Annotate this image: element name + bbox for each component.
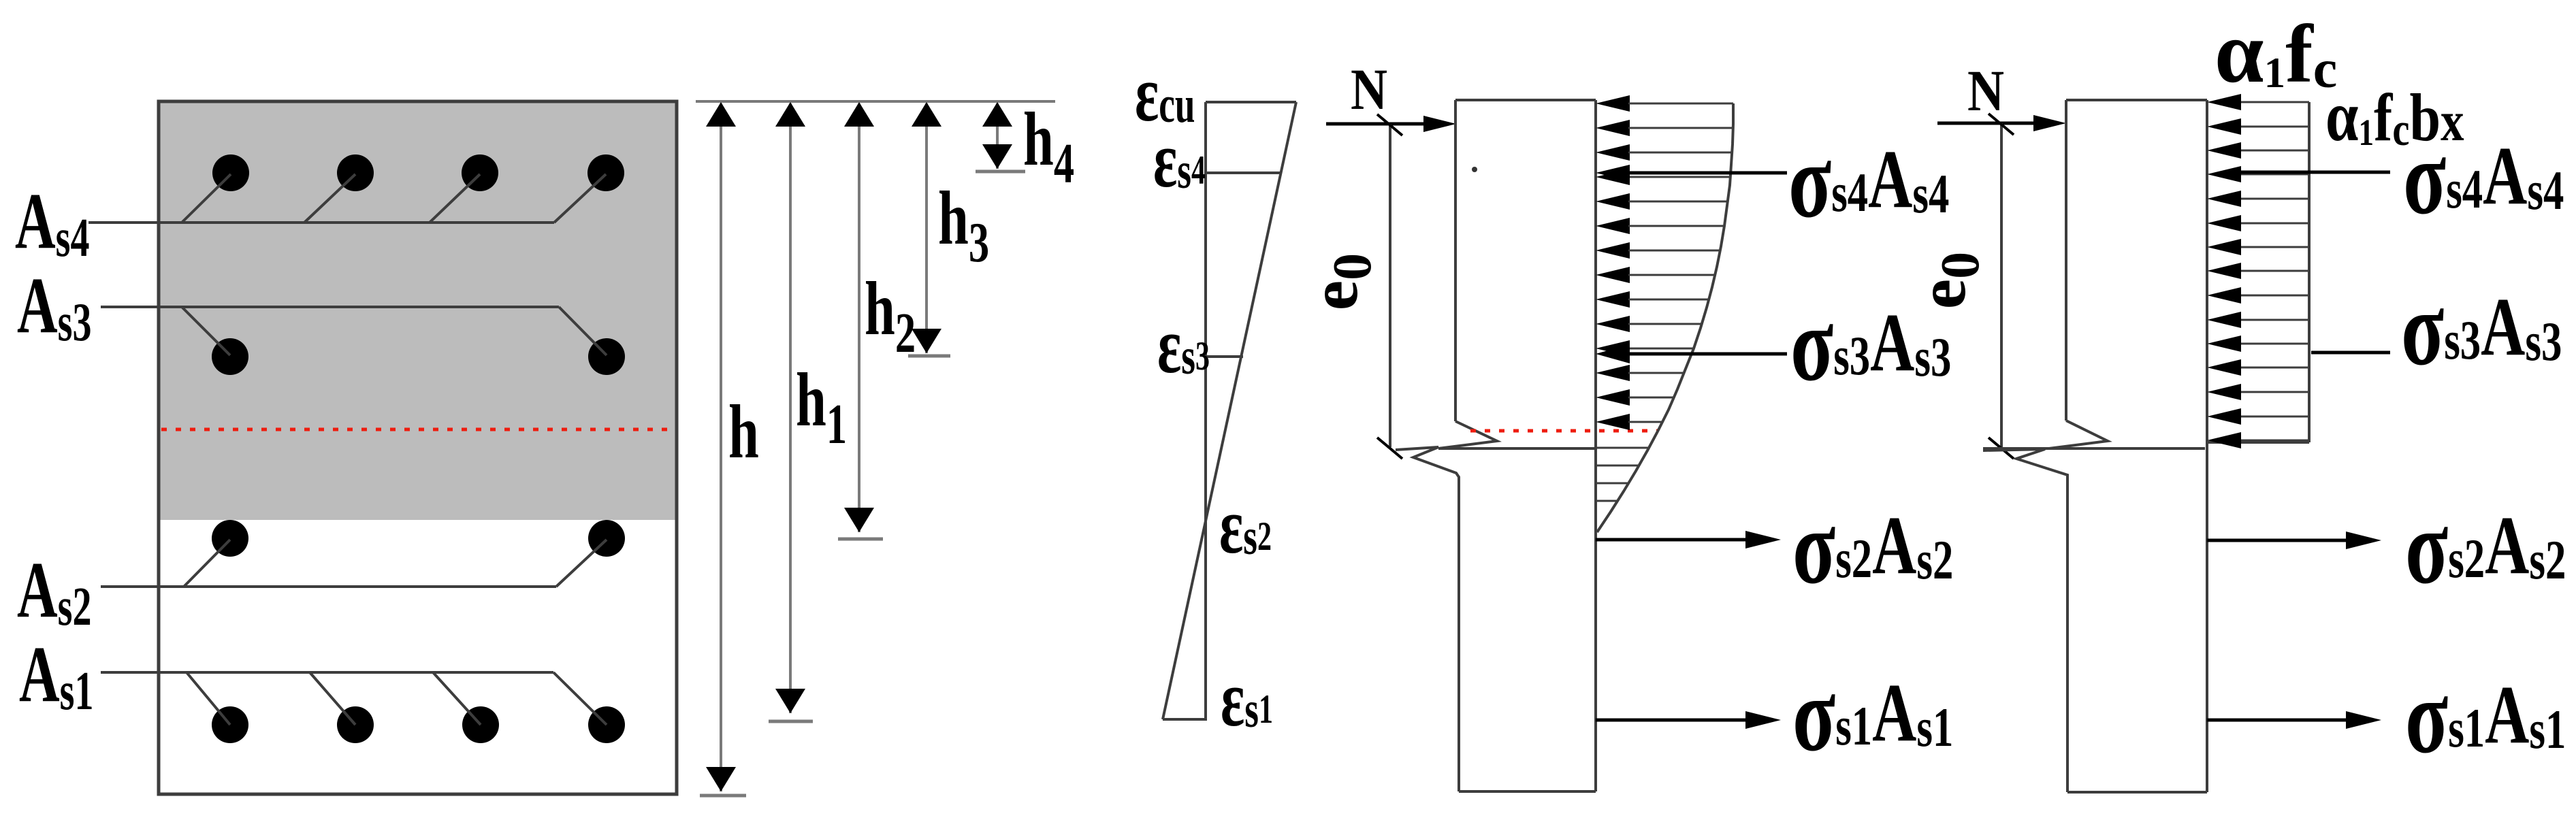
stress arrow middle y=152 — [1596, 95, 1630, 112]
strain diagram vertical axis — [1204, 102, 1207, 721]
h4 top arrow — [982, 102, 1012, 127]
h4 end tick — [976, 170, 1025, 174]
stress arrow middle y=476 — [1596, 316, 1630, 332]
middle column break upper zigzag — [1438, 421, 1497, 448]
h1 top arrow — [775, 102, 805, 127]
block arrow y=540 — [2207, 359, 2241, 376]
block hatch line y=434 — [2241, 295, 2309, 297]
leader sigma_s3*A_s3 (right) — [2311, 351, 2390, 355]
strain diagram sloped line — [1163, 102, 1296, 719]
stress hatch line middle y=296 — [1628, 201, 1728, 203]
stress arrow middle y=368 — [1596, 242, 1630, 259]
stress arrow middle y=440 — [1596, 291, 1630, 308]
label e0 (right, rotated) — [1904, 252, 1991, 309]
force N arrow shaft (right) — [1937, 122, 2037, 125]
label As2 — [17, 546, 91, 637]
label sigma_s3 A_s3 (middle) — [1790, 284, 1951, 403]
dimension e0 line (right) — [2000, 123, 2003, 447]
svg-text:N: N — [1967, 59, 2004, 123]
label alpha1*fc — [2215, 3, 2337, 101]
rebar dot As4 #2 — [337, 154, 374, 191]
block hatch line y=256 — [2241, 174, 2309, 176]
strain tick at steel layer 3 — [1206, 355, 1243, 358]
stress arrow middle y=260 — [1596, 169, 1630, 185]
label As1 — [19, 630, 93, 721]
label sigma_s2 A_s2 (middle) — [1792, 487, 1953, 606]
label N (middle) — [1351, 57, 1387, 122]
block arrow y=328 — [2207, 215, 2241, 231]
block arrow y=186 — [2207, 118, 2241, 135]
block arrow y=363 — [2207, 239, 2241, 255]
e0 bottom tick (middle) — [1377, 438, 1402, 459]
strain diagram bottom edge — [1163, 718, 1206, 721]
rebar dot As3 #1 — [212, 338, 248, 375]
stress hatch line middle y=476 — [1628, 323, 1702, 325]
rebar dot As4 #1 — [212, 154, 249, 191]
As3 leader diagonal right — [559, 307, 607, 355]
arrow sigma_s2*A_s2 head (middle) — [1745, 531, 1781, 549]
h3 bottom arrow — [912, 329, 941, 353]
As2 leader diagonal left — [184, 540, 230, 587]
stress arrow middle y=620 — [1596, 414, 1630, 430]
dimension e0 line (middle) — [1389, 124, 1391, 447]
h end tick — [700, 794, 746, 798]
stress hatch line middle y=368 — [1628, 250, 1720, 252]
h2 top arrow — [844, 102, 874, 127]
stress block bottom edge — [2207, 441, 2309, 444]
h4 bottom arrow — [982, 144, 1012, 169]
middle column break cut line — [1438, 447, 1596, 450]
dimension line h — [720, 103, 722, 791]
stress hatch line middle y=440 — [1628, 299, 1709, 301]
middle column right edge — [1594, 100, 1597, 791]
block arrow y=434 — [2207, 287, 2241, 304]
stress hatch line middle y=152 — [1628, 103, 1733, 105]
force N arrowhead (middle) — [1423, 116, 1456, 132]
h top arrow — [706, 102, 736, 127]
block hatch line y=292 — [2241, 198, 2309, 200]
stress hatch line (below arrows) y=658 — [1596, 447, 1649, 449]
top extension line — [696, 100, 1055, 103]
As2 leader diagonal right — [556, 540, 607, 587]
rebar dot As4 #4 — [587, 154, 624, 191]
block arrow y=292 — [2207, 191, 2241, 207]
concrete compressive stress curve — [1597, 103, 1733, 532]
label h1 — [796, 358, 847, 455]
h2 bottom arrow — [844, 508, 874, 532]
As4 leader diagonal — [182, 174, 231, 223]
stress hatch line (below arrows) y=736 — [1596, 500, 1618, 502]
label h2 — [865, 267, 916, 364]
neutral axis (red dotted) of cross-section — [161, 428, 675, 431]
As2 leader line — [101, 585, 556, 588]
arrow sigma_s1*A_s1 shaft (middle) — [1596, 719, 1750, 722]
label h — [728, 390, 759, 474]
As4 leader diagonal — [554, 174, 606, 223]
label As4 — [15, 177, 89, 268]
label epsilon_s2 — [1219, 482, 1272, 571]
force N arrowhead (right) — [2033, 115, 2066, 131]
block arrow y=256 — [2207, 166, 2241, 182]
e0 bottom tick (right) — [1989, 438, 2014, 459]
As4 leader diagonal — [430, 174, 480, 223]
block hatch line y=576 — [2241, 391, 2309, 393]
label sigma_s1 A_s1 (middle) — [1792, 655, 1953, 773]
arrow sigma_s2*A_s2 shaft (right) — [2207, 539, 2350, 542]
block hatch line y=647 — [2241, 440, 2309, 442]
arrow sigma_s1*A_s1 shaft (right) — [2207, 719, 2350, 722]
right column top edge — [2066, 99, 2207, 101]
dimension line h1 — [789, 103, 792, 713]
block hatch line y=328 — [2241, 223, 2309, 225]
stress hatch line middle y=332 — [1628, 225, 1724, 227]
stress hatch line middle y=548 — [1628, 372, 1684, 374]
dimension line h4 — [996, 103, 999, 169]
label As3 — [17, 261, 91, 353]
rebar dot As1 #4 — [588, 706, 625, 743]
arrow sigma_s1*A_s1 head (middle) — [1745, 711, 1781, 729]
e0 top tick (middle) — [1377, 114, 1402, 135]
As1 leader diagonal — [553, 672, 607, 725]
block arrow y=612 — [2207, 408, 2241, 425]
As4 leader line — [88, 221, 554, 224]
rebar dot As3 #2 — [588, 338, 625, 375]
label h3 — [938, 176, 989, 274]
stress arrow middle y=512 — [1596, 340, 1630, 357]
stress hatch line middle y=404 — [1628, 274, 1715, 276]
label e0 (middle, rotated) — [1296, 253, 1383, 310]
stress hatch line middle y=260 — [1628, 176, 1730, 178]
small speck artifact — [1472, 167, 1477, 172]
block hatch line y=186 — [2241, 126, 2309, 128]
label epsilon_s3 — [1157, 301, 1210, 391]
h3 end tick — [908, 355, 950, 358]
label epsilon_s1 — [1221, 655, 1273, 744]
neutral axis (red dotted) middle column — [1470, 429, 1658, 433]
As1 leader diagonal — [433, 672, 481, 725]
block hatch line y=540 — [2241, 367, 2309, 369]
right column break cut line — [1983, 447, 2205, 450]
stress arrow middle y=404 — [1596, 267, 1630, 283]
label sigma_s2 A_s2 (right) — [2405, 487, 2566, 606]
label sigma_s4 A_s4 (middle) — [1788, 121, 1949, 240]
stress arrow middle y=224 — [1596, 144, 1630, 161]
strain diagram top edge — [1206, 101, 1296, 103]
stress hatch line middle y=188 — [1628, 127, 1733, 129]
stress arrow middle y=548 — [1596, 365, 1630, 381]
block hatch line y=505 — [2241, 343, 2309, 345]
middle column upper left edge — [1454, 100, 1457, 421]
rebar dot As4 #3 — [462, 154, 498, 191]
label sigma_s3 A_s3 (right) — [2401, 269, 2562, 387]
leader sigma_s4*A_s4 (right) — [2241, 171, 2390, 174]
block arrow y=647 — [2207, 432, 2241, 448]
force N arrow shaft (middle) — [1326, 122, 1427, 126]
h1 bottom arrow — [775, 689, 805, 713]
stress hatch line (below arrows) y=684 — [1596, 465, 1639, 467]
concrete section outline — [159, 101, 677, 794]
block arrow y=398 — [2207, 263, 2241, 279]
block arrow y=221 — [2207, 142, 2241, 159]
right column bottom edge — [2067, 791, 2207, 794]
label h4 — [1023, 97, 1074, 195]
block hatch line y=150 — [2241, 101, 2309, 103]
block arrow y=150 — [2207, 94, 2241, 110]
h1 end tick — [769, 720, 813, 723]
extra arrowhead at sigma_s4 line — [1596, 165, 1630, 181]
arrow sigma_s1*A_s1 head (right) — [2346, 711, 2381, 729]
h2 end tick — [838, 538, 883, 541]
right column upper left edge — [2065, 100, 2067, 421]
rebar dot As2 #2 — [588, 520, 625, 557]
right column right edge — [2206, 100, 2208, 792]
As1 leader line — [101, 671, 553, 674]
block hatch line y=363 — [2241, 246, 2309, 248]
block arrow y=505 — [2207, 336, 2241, 352]
rebar dot As1 #3 — [462, 706, 499, 743]
svg-text:N: N — [1351, 57, 1387, 122]
h3 top arrow — [912, 102, 941, 127]
label epsilon_cu — [1135, 50, 1195, 139]
arrow sigma_s2*A_s2 head (right) — [2346, 531, 2381, 549]
right column break lower zigzag + lower left edge — [1983, 449, 2067, 792]
label sigma_s1 A_s1 (right) — [2405, 657, 2566, 775]
stress block right edge — [2308, 102, 2311, 442]
h bottom arrow — [706, 767, 736, 791]
extra arrowhead at sigma_s3 line — [1596, 344, 1630, 363]
block hatch line y=398 — [2241, 270, 2309, 272]
block hatch line y=612 — [2241, 416, 2309, 418]
stress hatch line middle y=584 — [1628, 397, 1674, 399]
As1 leader diagonal — [187, 672, 230, 725]
stress hatch line (below arrows) y=710 — [1596, 482, 1629, 485]
label N (right) — [1967, 59, 2004, 123]
label sigma_s4 A_s4 (right) — [2403, 118, 2564, 236]
leader sigma_s4*A_s4 (middle) — [1628, 171, 1787, 175]
rebar dot As1 #1 — [212, 706, 248, 743]
e0 top tick (right) — [1989, 114, 2014, 135]
middle column bottom edge — [1459, 790, 1596, 793]
leader sigma_s3*A_s3 (middle) — [1628, 353, 1787, 356]
dimension line h2 — [858, 103, 860, 532]
stress hatch line middle y=620 — [1628, 421, 1662, 423]
arrow sigma_s2*A_s2 shaft (middle) — [1596, 538, 1750, 542]
block hatch line y=470 — [2241, 319, 2309, 321]
dimension line h3 — [925, 103, 928, 353]
stress arrow middle y=188 — [1596, 120, 1630, 136]
stress arrow middle y=296 — [1596, 193, 1630, 210]
middle column top edge — [1455, 99, 1596, 101]
block arrow y=576 — [2207, 384, 2241, 400]
As3 leader diagonal left — [182, 307, 230, 355]
block arrow y=470 — [2207, 312, 2241, 328]
label alpha1*fc*b*x — [2325, 76, 2464, 156]
rebar dot As2 #1 — [212, 520, 248, 557]
middle column break lower zigzag + lower left edge — [1396, 447, 1459, 791]
stress hatch line middle y=224 — [1628, 152, 1732, 154]
As3 leader line — [101, 306, 559, 308]
rebar dot As1 #2 — [337, 706, 374, 743]
stress hatch line middle y=512 — [1628, 348, 1694, 350]
concrete compression zone (gray fill) — [159, 101, 677, 520]
stress arrow middle y=332 — [1596, 218, 1630, 234]
stress arrow middle y=584 — [1596, 389, 1630, 406]
As4 leader diagonal — [304, 174, 355, 223]
block hatch line y=221 — [2241, 150, 2309, 152]
As1 leader diagonal — [310, 672, 355, 725]
label epsilon_s4 — [1153, 116, 1206, 205]
strain tick at steel layer 4 — [1206, 171, 1281, 174]
right column break upper zigzag — [2049, 421, 2108, 448]
svg-text:h: h — [728, 390, 759, 474]
